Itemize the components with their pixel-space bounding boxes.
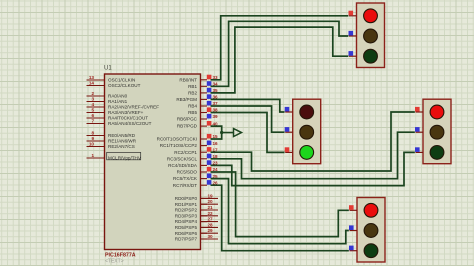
svg-text:RB5: RB5	[188, 110, 197, 115]
svg-text:RC4/SDI/SDA: RC4/SDI/SDA	[168, 163, 198, 168]
svg-text:RD6/PSP6: RD6/PSP6	[175, 231, 198, 236]
svg-text:10: 10	[89, 142, 95, 147]
svg-text:39: 39	[213, 114, 219, 119]
svg-text:5: 5	[91, 108, 94, 113]
svg-text:RB0/INT: RB0/INT	[179, 77, 197, 82]
svg-text:<TEXT>: <TEXT>	[105, 258, 124, 264]
svg-text:RB4: RB4	[188, 104, 197, 109]
svg-text:RE0/AN5/RD: RE0/AN5/RD	[108, 133, 136, 138]
svg-text:RB6/PGC: RB6/PGC	[177, 117, 198, 122]
svg-text:13: 13	[89, 75, 95, 80]
svg-text:OSC2/CLKOUT: OSC2/CLKOUT	[108, 83, 141, 88]
svg-text:RE1/AN6/WR: RE1/AN6/WR	[108, 139, 137, 144]
svg-text:2: 2	[91, 91, 94, 96]
svg-text:8: 8	[91, 131, 94, 136]
svg-text:RE2/AN7/CS: RE2/AN7/CS	[108, 144, 135, 149]
svg-text:21: 21	[208, 205, 214, 210]
svg-text:RC0/T1OSO/T1CKI: RC0/T1OSO/T1CKI	[157, 137, 197, 142]
svg-text:27: 27	[208, 217, 214, 222]
svg-text:RD5/PSP5: RD5/PSP5	[175, 225, 198, 230]
svg-text:20: 20	[208, 199, 214, 204]
svg-text:RD7/PSP7: RD7/PSP7	[175, 237, 198, 242]
svg-text:RB1: RB1	[188, 84, 197, 89]
svg-text:22: 22	[208, 211, 214, 216]
svg-text:RD2/PSP2: RD2/PSP2	[175, 208, 198, 213]
svg-text:RC6/TX/CK: RC6/TX/CK	[173, 176, 198, 181]
svg-text:RC3/SCK/SCL: RC3/SCK/SCL	[167, 156, 198, 161]
svg-text:RA5/AN4/SS/C2OUT: RA5/AN4/SS/C2OUT	[108, 121, 152, 126]
svg-text:RC1/T1OSI/CCP2: RC1/T1OSI/CCP2	[160, 143, 198, 148]
svg-text:RB7/PGD: RB7/PGD	[177, 124, 198, 129]
svg-text:6: 6	[91, 113, 94, 118]
svg-text:RD1/PSP1: RD1/PSP1	[175, 202, 198, 207]
svg-text:28: 28	[208, 222, 214, 227]
svg-text:14: 14	[89, 81, 95, 86]
svg-text:7: 7	[91, 119, 94, 124]
svg-text:RB2: RB2	[188, 91, 197, 96]
svg-text:RA1/AN1: RA1/AN1	[108, 99, 128, 104]
svg-text:RA0/AN0: RA0/AN0	[108, 94, 128, 99]
svg-text:16: 16	[213, 141, 219, 146]
svg-text:1: 1	[91, 153, 94, 158]
svg-text:RA3/AN3/VREF+: RA3/AN3/VREF+	[108, 110, 144, 115]
svg-text:MCLR/Vpp/THV: MCLR/Vpp/THV	[108, 156, 142, 161]
svg-text:9: 9	[91, 136, 94, 141]
svg-text:OSC1/CLKIN: OSC1/CLKIN	[108, 78, 135, 83]
svg-text:RD4/PSP4: RD4/PSP4	[175, 219, 198, 224]
svg-text:RC5/SDO: RC5/SDO	[177, 170, 198, 175]
svg-text:19: 19	[208, 193, 214, 198]
svg-text:29: 29	[208, 228, 214, 233]
svg-text:RD3/PSP3: RD3/PSP3	[175, 213, 198, 218]
svg-text:RC7/RX/DT: RC7/RX/DT	[173, 183, 197, 188]
svg-text:RA4/T0CKI/C1OUT: RA4/T0CKI/C1OUT	[108, 116, 148, 121]
svg-text:RC2/CCP1: RC2/CCP1	[174, 150, 197, 155]
svg-text:30: 30	[208, 234, 214, 239]
svg-text:4: 4	[91, 102, 94, 107]
svg-text:3: 3	[91, 97, 94, 102]
svg-text:RB3/PGM: RB3/PGM	[176, 97, 197, 102]
svg-text:RD0/PSP0: RD0/PSP0	[175, 196, 198, 201]
svg-text:RA2/AN2/VREF-/CVREF: RA2/AN2/VREF-/CVREF	[108, 105, 159, 110]
svg-text:U1: U1	[104, 66, 112, 72]
